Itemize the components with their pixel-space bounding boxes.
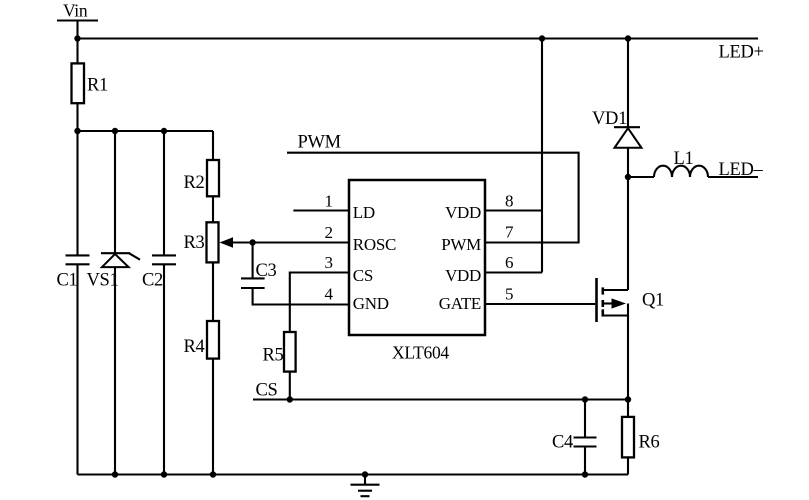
- svg-text:6: 6: [505, 253, 513, 272]
- wire VD1 top: [627, 39, 629, 128]
- resistor R5: [284, 332, 296, 372]
- pin label PWM (pin 7): [441, 235, 481, 254]
- svg-text:2: 2: [325, 223, 333, 242]
- junction Vin / top rail: [74, 35, 80, 41]
- junction R1 / mid rail: [74, 128, 80, 134]
- svg-text:XLT604: XLT604: [392, 343, 449, 363]
- resistor R1: [72, 63, 85, 103]
- pin number 3: [325, 253, 333, 272]
- svg-text:C1: C1: [57, 271, 78, 291]
- svg-text:Q1: Q1: [642, 291, 664, 311]
- wire VDD pin 6: [485, 271, 542, 273]
- wire GATE pin 5: [485, 303, 595, 305]
- svg-text:R3: R3: [184, 233, 205, 253]
- wire R6 top: [627, 400, 629, 417]
- transistor Q1: [597, 278, 629, 322]
- wire R6 bottom: [627, 457, 629, 474]
- wire Q1 drain: [627, 177, 629, 290]
- junction bottom rail / ground: [362, 471, 368, 477]
- wire R1 bottom: [76, 103, 78, 131]
- wire R3-R4: [212, 262, 214, 321]
- svg-text:PWM: PWM: [441, 235, 481, 254]
- svg-text:GND: GND: [353, 294, 389, 313]
- svg-text:GATE: GATE: [439, 294, 481, 313]
- junction bottom rail / R4: [210, 471, 216, 477]
- junction C4 / bottom rail: [582, 471, 588, 477]
- pin label VDD (pin 8): [445, 203, 481, 222]
- wire CS pin 3: [290, 273, 349, 333]
- wire CS rail: [253, 398, 628, 400]
- svg-text:4: 4: [325, 285, 334, 304]
- wire VDD pin 8: [485, 209, 542, 211]
- label Q1: [642, 291, 664, 311]
- capacitor C2: [152, 255, 176, 264]
- svg-text:VDD: VDD: [445, 203, 481, 222]
- wire C2 top: [163, 131, 165, 255]
- capacitor C1: [66, 255, 90, 264]
- resistor R2: [207, 160, 219, 196]
- svg-text:CS: CS: [256, 381, 278, 401]
- svg-text:R4: R4: [184, 337, 205, 357]
- svg-text:Vin: Vin: [63, 1, 88, 21]
- junction ROSC / C3: [249, 239, 255, 245]
- svg-text:VD1: VD1: [592, 109, 627, 129]
- wire VS1 bottom: [114, 267, 116, 474]
- wire ROSC pin 2: [233, 241, 349, 243]
- svg-text:R2: R2: [184, 173, 205, 193]
- label C2: [142, 271, 163, 291]
- wire C1 top: [76, 131, 78, 255]
- node PWM: [298, 133, 341, 153]
- capacitor C4: [574, 438, 597, 447]
- wire R4 bottom: [212, 359, 214, 475]
- wire bottom rail: [78, 473, 629, 475]
- ground: [351, 475, 380, 497]
- wire R5 bottom: [289, 372, 291, 400]
- label R6: [639, 433, 660, 453]
- label C4: [552, 433, 573, 453]
- svg-text:5: 5: [505, 285, 513, 304]
- pin label ROSC: [353, 235, 396, 254]
- wire C4 bottom: [584, 447, 586, 475]
- junction mid rail / C2: [161, 128, 167, 134]
- junction top rail / VDD branch: [539, 35, 545, 41]
- label C1: [57, 271, 78, 291]
- pin number 5: [505, 285, 513, 304]
- svg-text:1: 1: [325, 192, 333, 211]
- label VS1: [87, 271, 119, 291]
- svg-text:VDD: VDD: [445, 266, 481, 285]
- label R3: [184, 233, 205, 253]
- label L1: [674, 149, 694, 169]
- label R4: [184, 337, 205, 357]
- svg-text:PWM: PWM: [298, 133, 341, 153]
- zener diode VS1: [101, 253, 140, 267]
- wire R1 top: [76, 39, 78, 64]
- pin label VDD (pin 6): [445, 266, 481, 285]
- pin label GND: [353, 294, 389, 313]
- svg-text:ROSC: ROSC: [353, 235, 396, 254]
- wire Q1 source: [627, 304, 629, 400]
- wire Vin stub: [76, 21, 78, 39]
- pin number 4: [325, 285, 334, 304]
- pin number 1: [325, 192, 333, 211]
- label LED-: [719, 160, 764, 180]
- wire GND pin 4: [253, 288, 349, 305]
- resistor R3 (adjustable): [207, 222, 219, 262]
- wire R2-R3: [212, 196, 214, 222]
- pin number 7: [505, 222, 514, 241]
- junction bottom rail / C2: [161, 471, 167, 477]
- resistor R6: [622, 417, 634, 458]
- junction Q1 source / CS rail / R6: [625, 396, 631, 402]
- svg-text:7: 7: [505, 222, 514, 241]
- svg-text:R6: R6: [639, 433, 660, 453]
- diode VD1: [614, 127, 642, 148]
- svg-text:VS1: VS1: [87, 271, 119, 291]
- junction VD1 / L1 / Q1 drain: [625, 174, 631, 180]
- wire C2 bottom: [163, 264, 165, 474]
- svg-text:C3: C3: [256, 261, 277, 281]
- pin label GATE (pin 5): [439, 294, 481, 313]
- wire top rail: [78, 37, 759, 39]
- label R5: [263, 346, 284, 366]
- junction top rail / VD1 branch: [625, 35, 631, 41]
- wire C3 top: [252, 243, 254, 278]
- svg-text:CS: CS: [353, 266, 373, 285]
- label LED+: [719, 43, 764, 63]
- wire C4 top: [584, 400, 586, 438]
- label R2: [184, 173, 205, 193]
- capacitor C3: [241, 278, 265, 288]
- junction bottom rail / VS1: [112, 471, 118, 477]
- pin label LD: [353, 203, 375, 222]
- wire C1 bottom: [76, 264, 78, 474]
- wire Vin underline: [57, 19, 98, 21]
- pin number 6: [505, 253, 513, 272]
- wire LD pin 1: [293, 209, 349, 211]
- junction R5 / CS rail: [287, 396, 293, 402]
- pin label CS: [353, 266, 373, 285]
- IC U1 XLT604: [349, 180, 485, 335]
- label VD1: [592, 109, 627, 129]
- wire R2 top: [212, 131, 214, 160]
- junction mid rail / VS1: [112, 128, 118, 134]
- svg-text:3: 3: [325, 253, 333, 272]
- pin number 2: [325, 223, 333, 242]
- svg-text:LED+: LED+: [719, 43, 764, 63]
- svg-text:LED–: LED–: [719, 160, 764, 180]
- wire mid rail: [78, 130, 214, 132]
- wire L1 left: [628, 176, 654, 178]
- label R1: [87, 75, 108, 95]
- wiper arrow R3: [220, 237, 234, 248]
- svg-text:C4: C4: [552, 433, 573, 453]
- svg-text:R5: R5: [263, 346, 284, 366]
- wire LED-: [708, 176, 758, 178]
- wire VD1 bottom: [627, 148, 629, 177]
- pin number 8: [505, 192, 513, 211]
- svg-text:L1: L1: [674, 149, 694, 169]
- svg-text:8: 8: [505, 192, 513, 211]
- wire VDD vertical branch: [541, 39, 543, 273]
- node Vin: [63, 1, 88, 21]
- label C3: [256, 261, 277, 281]
- label XLT604: [392, 343, 449, 363]
- svg-text:C2: C2: [142, 271, 163, 291]
- svg-text:R1: R1: [87, 75, 108, 95]
- resistor R4: [207, 321, 219, 359]
- wire PWM net: [287, 153, 579, 243]
- svg-text:LD: LD: [353, 203, 375, 222]
- wire VS1 top: [114, 131, 116, 253]
- inductor L1: [654, 166, 708, 177]
- node CS: [256, 381, 278, 401]
- junction C4 / CS rail: [582, 396, 588, 402]
